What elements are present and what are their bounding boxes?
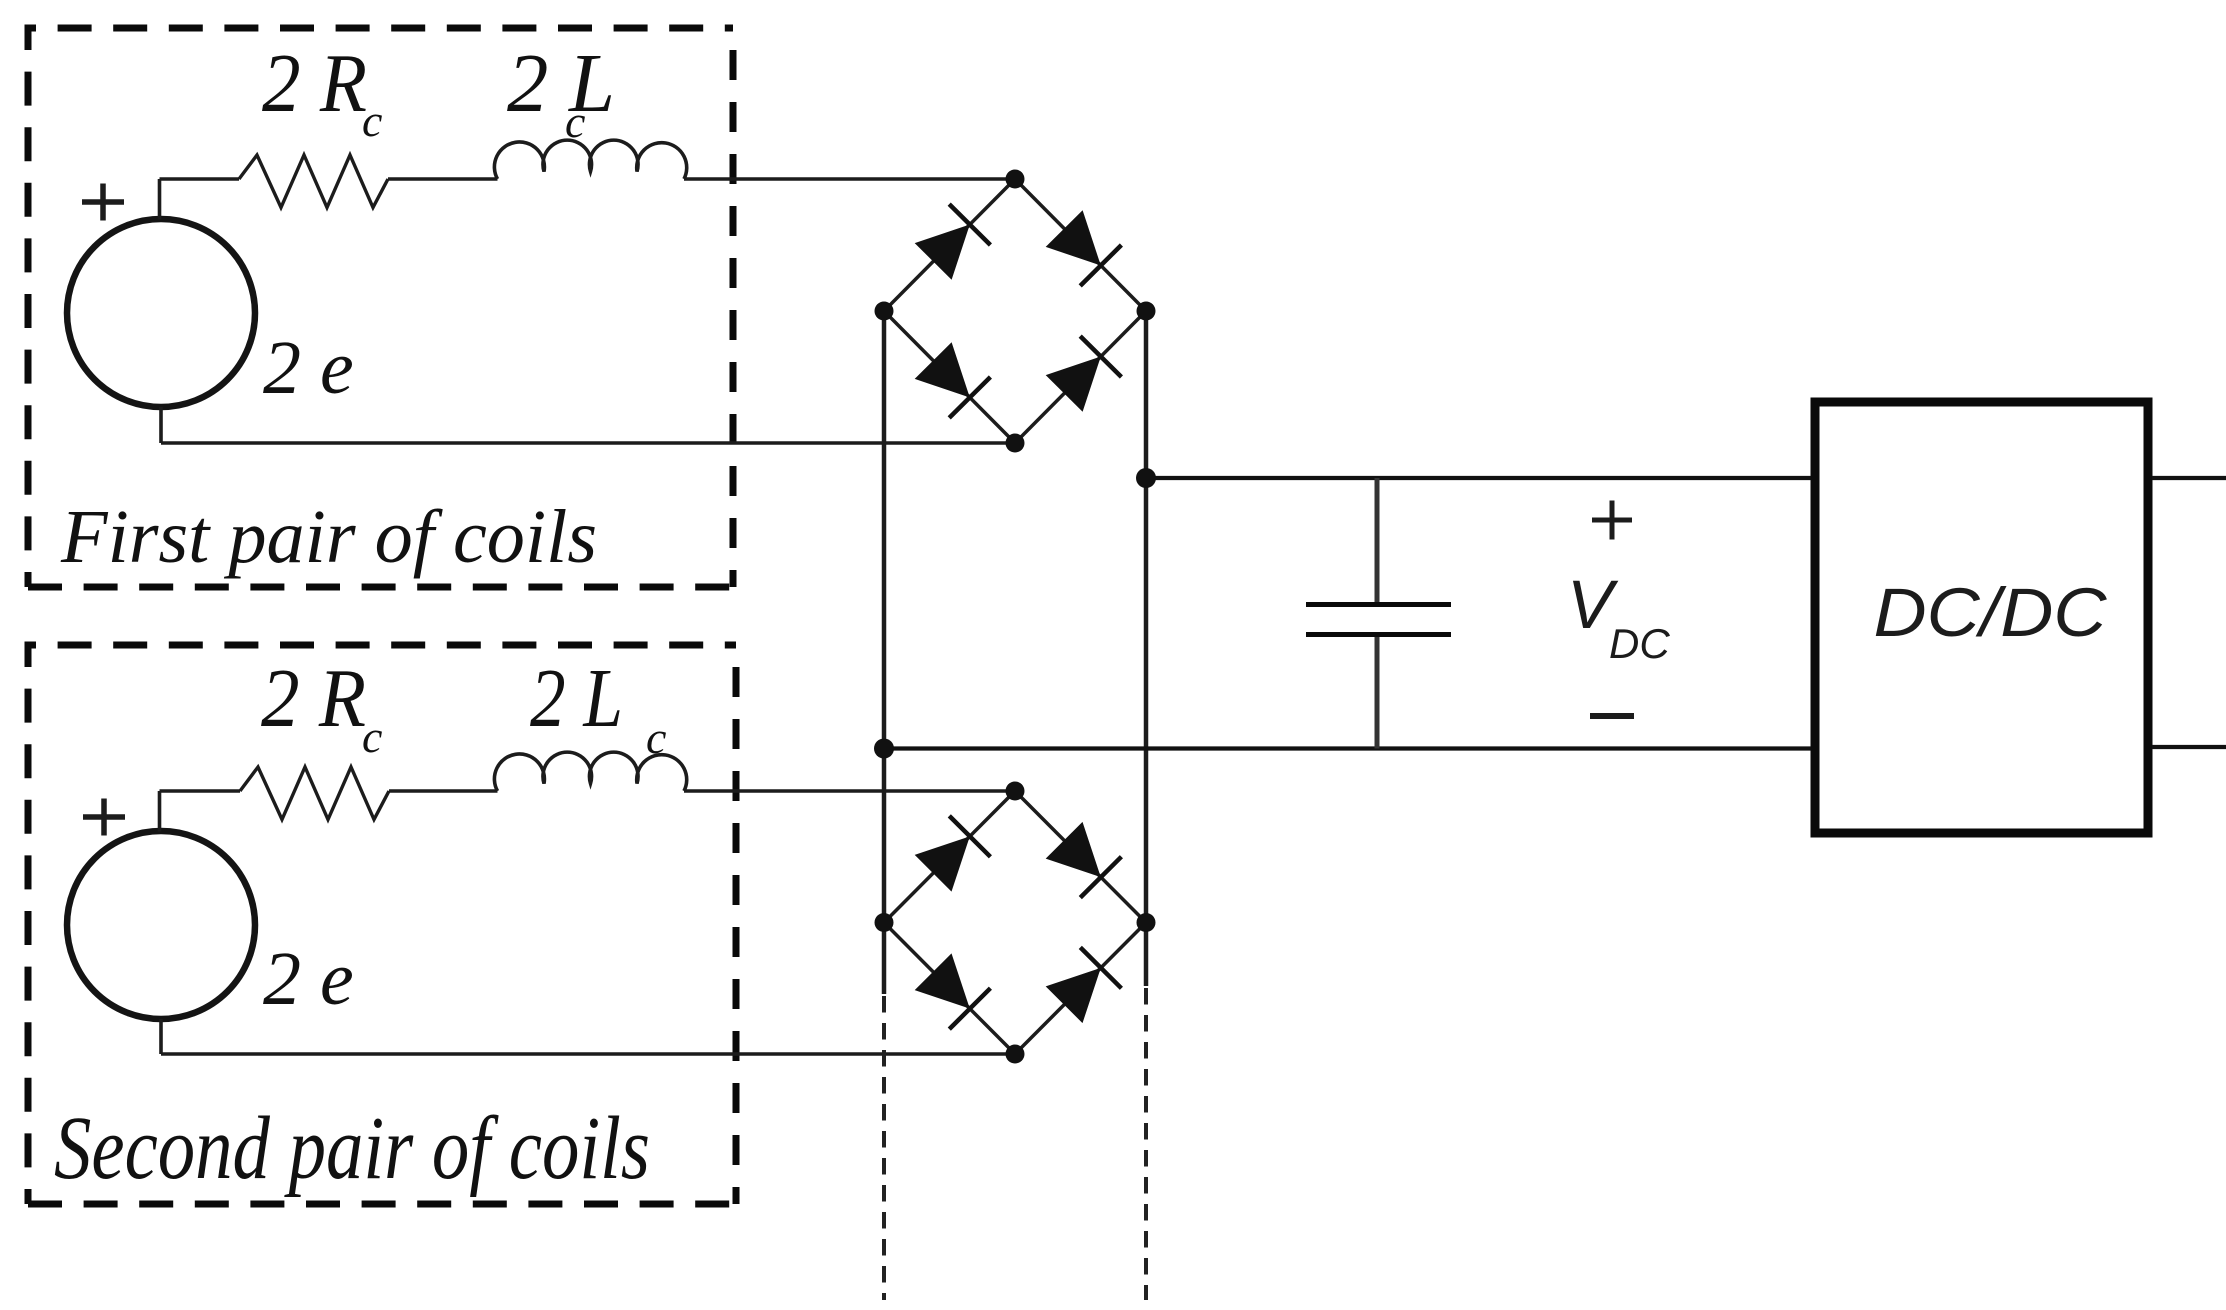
voltage source 2e (first pair) bbox=[67, 219, 255, 407]
wire: DC/DC output top bbox=[2152, 476, 2226, 480]
resistor 2Rc (second pair) bbox=[240, 767, 389, 820]
svg-text:DC/DC: DC/DC bbox=[1874, 574, 2108, 651]
svg-text:First pair of coils: First pair of coils bbox=[60, 495, 597, 579]
svg-text:2 R: 2 R bbox=[262, 37, 367, 130]
voltage source 2e (second pair) bbox=[67, 831, 255, 1019]
wire: source top stub (second pair) bbox=[158, 791, 162, 832]
wire: top DC+ rail to DC/DC input bbox=[1146, 476, 1816, 480]
wire: source bottom stub (first pair) bbox=[159, 407, 163, 443]
node: bridge 2 left DC- node bbox=[875, 913, 894, 932]
svg-text:2 e: 2 e bbox=[263, 937, 354, 1021]
diode D2a (lower-left to top, arrow toward top node) bbox=[915, 816, 991, 892]
polarity - of VDC bbox=[1590, 713, 1634, 719]
node: bridge 1 bottom AC node bbox=[1006, 434, 1025, 453]
bridge rectifier 1: diamond edges bbox=[884, 179, 1146, 443]
enclosure dashed box: first pair of coils bbox=[25, 25, 734, 588]
wire: right DC+ bus (solid) connecting bridge 1 and bridge 2 right nodes bbox=[1144, 311, 1149, 986]
diode D2d (bottom to right, arrow toward right node) bbox=[1046, 947, 1122, 1023]
svg-text:c: c bbox=[362, 711, 382, 762]
diode D1c (left to bottom, arrow toward bottom node) bbox=[915, 342, 991, 418]
capacitor C (DC link): top lead bbox=[1375, 478, 1380, 602]
diode D2b (top to right, arrow toward right node) bbox=[1046, 822, 1122, 898]
node: bridge 2 right DC+ node bbox=[1137, 913, 1156, 932]
wire: inductor to bridge 2 top node bbox=[684, 789, 1015, 793]
diode D1d (bottom to right, arrow toward right node) bbox=[1046, 336, 1122, 412]
svg-text:c: c bbox=[646, 712, 666, 763]
wire: left DC- bus dashed continuation bbox=[882, 996, 886, 1300]
wire: inductor to bridge 1 top node bbox=[684, 177, 1015, 181]
svg-text:2 e: 2 e bbox=[263, 326, 354, 410]
bridge rectifier 2: diamond edges bbox=[884, 791, 1146, 1054]
wire: source return to bridge 2 bottom node bbox=[161, 1052, 1015, 1056]
svg-text:2 R: 2 R bbox=[261, 652, 366, 745]
capacitor C: bottom plate bbox=[1306, 632, 1451, 637]
wire: source top stub (first pair) bbox=[158, 179, 162, 220]
enclosure dashed box: second pair of coils bbox=[25, 642, 737, 1205]
wire: DC/DC output bottom bbox=[2152, 745, 2226, 749]
DC/DC converter block U1 bbox=[1815, 402, 2148, 833]
inductor 2Lc (first pair) bbox=[494, 140, 686, 179]
node: bridge 2 bottom AC node bbox=[1006, 1045, 1025, 1064]
capacitor C: top plate bbox=[1306, 602, 1451, 607]
diode D1a (lower-left to top, arrow toward top node) bbox=[915, 204, 991, 280]
svg-text:c: c bbox=[362, 95, 382, 146]
polarity + of VDC bbox=[1592, 501, 1632, 540]
node: bridge 1 right DC+ node bbox=[1137, 302, 1156, 321]
capacitor C: bottom lead bbox=[1375, 637, 1380, 749]
node: bridge 1 left DC- node bbox=[875, 302, 894, 321]
node: bridge 2 top AC node bbox=[1006, 782, 1025, 801]
node: junction of left bus and bottom DC- rail bbox=[874, 739, 894, 759]
resistor 2Rc (first pair) bbox=[239, 155, 388, 208]
wire: source bottom stub (second pair) bbox=[159, 1019, 163, 1054]
svg-text:c: c bbox=[565, 96, 585, 147]
svg-text:Second pair of coils: Second pair of coils bbox=[54, 1099, 650, 1198]
wire: resistor to inductor (second pair) bbox=[389, 789, 498, 793]
svg-text:DC: DC bbox=[1609, 620, 1670, 667]
wire: source to resistor (second pair) bbox=[160, 789, 241, 793]
wire: resistor to inductor (first pair) bbox=[388, 177, 498, 181]
node: bridge 1 top AC node bbox=[1006, 170, 1025, 189]
polarity + of source 2e (second pair) bbox=[83, 799, 125, 836]
polarity + of source 2e (first pair) bbox=[82, 184, 124, 221]
inductor 2Lc (second pair) bbox=[494, 752, 686, 791]
wire: source return to bridge 1 bottom node bbox=[161, 441, 1015, 445]
svg-text:2 L: 2 L bbox=[507, 37, 615, 130]
wire: right DC+ bus dashed continuation bbox=[1144, 988, 1148, 1300]
svg-text:2 L: 2 L bbox=[530, 652, 623, 745]
wire: left DC- bus (solid) connecting bridge 1 and bridge 2 left nodes bbox=[882, 311, 887, 994]
diode D2c (left to bottom, arrow toward bottom node) bbox=[915, 953, 991, 1029]
wire: bottom DC- rail to DC/DC input bbox=[884, 746, 1816, 750]
node: junction of right bus and top DC+ rail bbox=[1136, 468, 1156, 488]
wire: source to resistor (first pair) bbox=[160, 177, 240, 181]
diode D1b (top to right, arrow toward right node) bbox=[1046, 210, 1122, 286]
